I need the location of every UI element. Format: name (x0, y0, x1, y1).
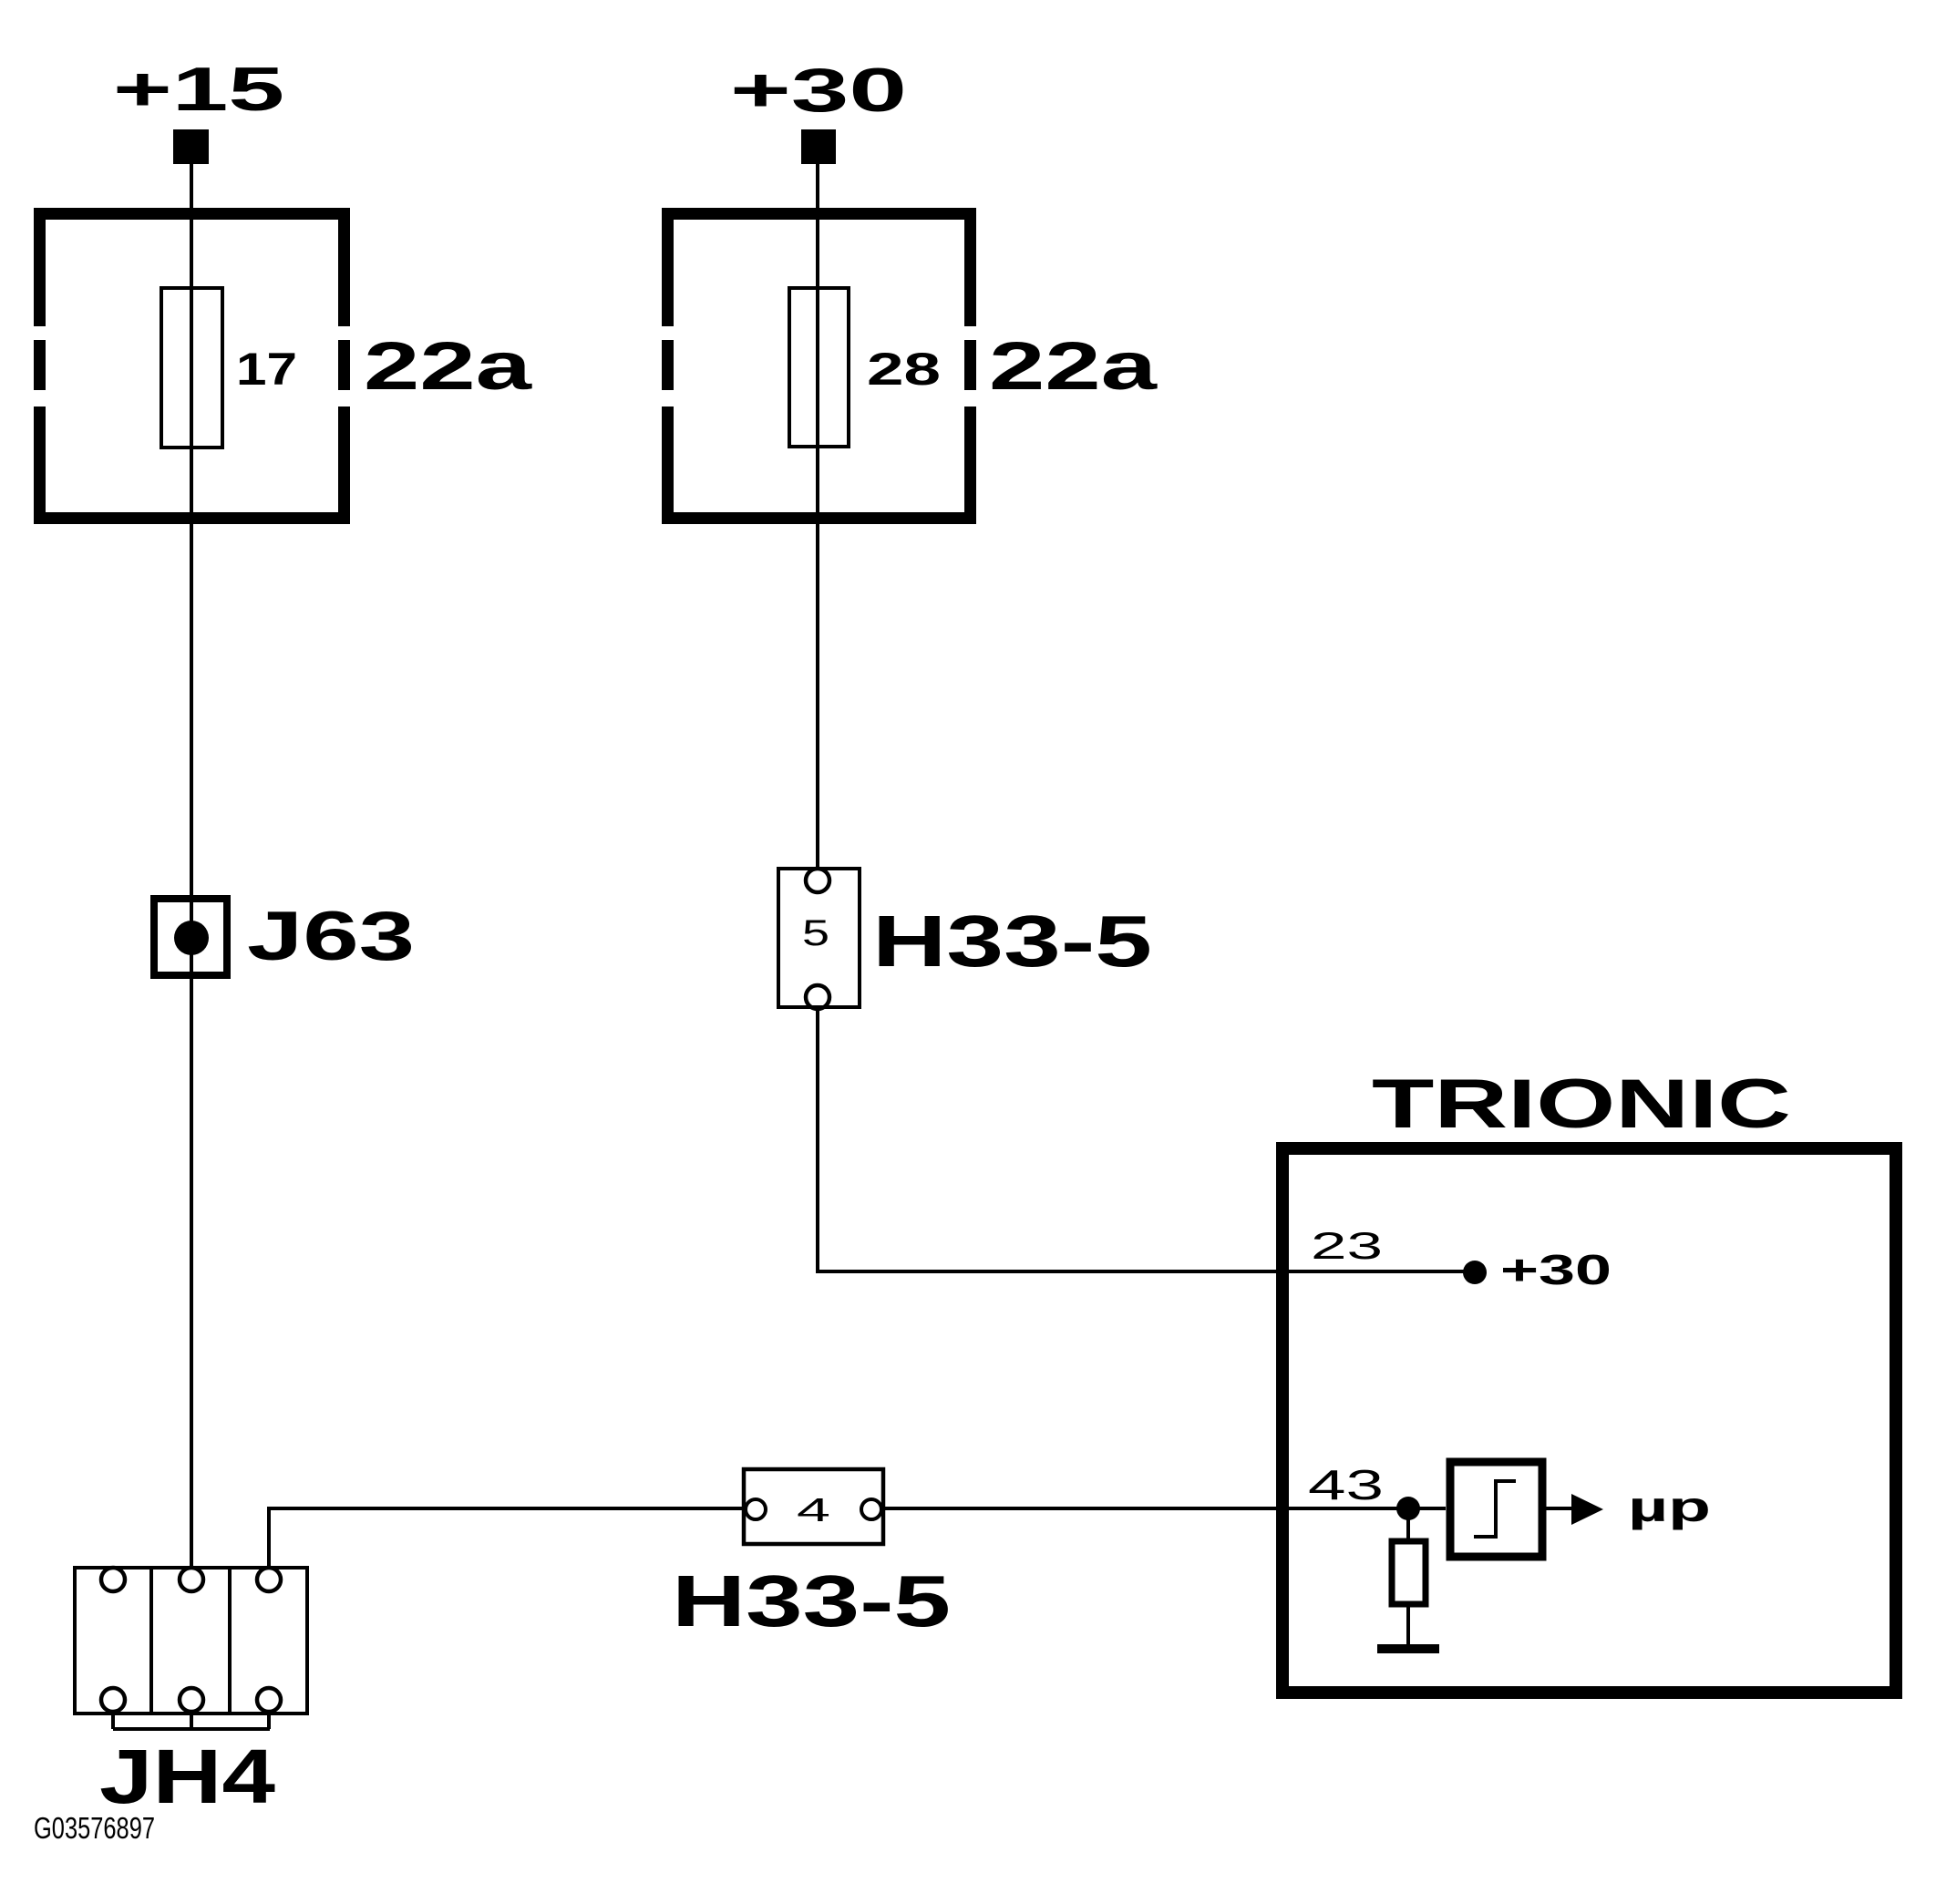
svg-text:23: 23 (1311, 1224, 1383, 1267)
svg-text:µp: µp (1628, 1483, 1711, 1530)
svg-text:H33-5: H33-5 (872, 901, 1152, 982)
svg-text:J63: J63 (247, 898, 415, 975)
svg-text:5: 5 (802, 913, 829, 953)
svg-text:28: 28 (867, 344, 941, 395)
svg-text:4: 4 (797, 1491, 830, 1528)
svg-text:43: 43 (1308, 1461, 1384, 1508)
svg-text:H33-5: H33-5 (672, 1560, 951, 1642)
svg-text:+30: +30 (1500, 1246, 1612, 1293)
svg-text:JH4: JH4 (99, 1734, 275, 1819)
svg-text:+15: +15 (113, 55, 284, 124)
svg-text:22a: 22a (989, 328, 1158, 404)
svg-text:+30: +30 (730, 56, 907, 125)
svg-text:22a: 22a (364, 328, 532, 404)
svg-text:TRIONIC: TRIONIC (1372, 1065, 1791, 1143)
svg-text:G03576897: G03576897 (34, 1811, 155, 1845)
svg-text:17: 17 (236, 344, 297, 395)
